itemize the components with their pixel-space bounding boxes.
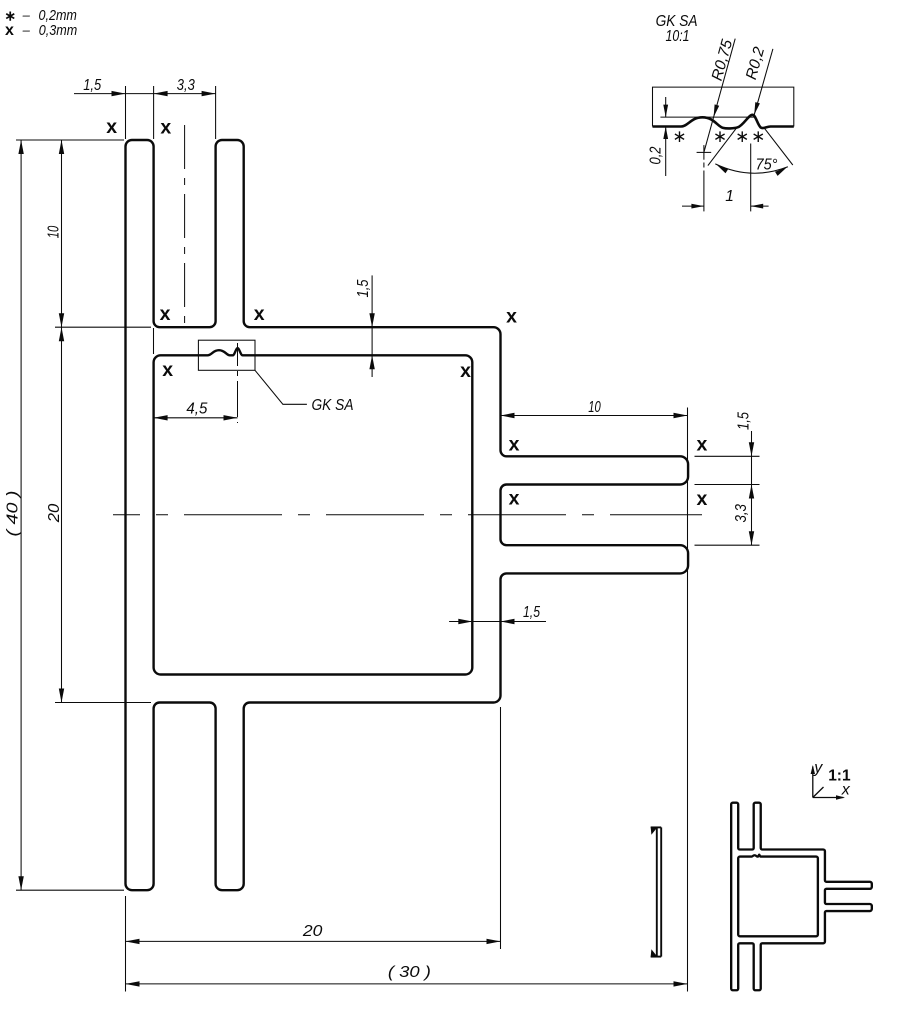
dimension 1,5 top wall <box>355 275 375 377</box>
svg-text:x: x <box>696 488 707 510</box>
legend x 0,3mm <box>5 22 77 39</box>
svg-text:x: x <box>160 303 171 325</box>
dimension 10 left <box>46 140 65 327</box>
tolerance mark x4 <box>254 303 265 325</box>
svg-text:x: x <box>254 303 265 325</box>
detail section rectangle <box>653 87 794 126</box>
tolerance mark x5 <box>506 305 517 327</box>
svg-text:∗: ∗ <box>751 127 765 146</box>
tolerance mark x11 <box>696 488 707 510</box>
GK SA detail marker box <box>198 340 255 370</box>
svg-text:1: 1 <box>725 188 734 205</box>
angle 75 degrees cone and arc <box>708 127 793 176</box>
svg-text:1,5: 1,5 <box>523 604 540 621</box>
svg-text:10: 10 <box>46 225 63 238</box>
svg-text:x: x <box>460 360 471 382</box>
dimension (30) bottom <box>126 964 688 987</box>
svg-text:∗: ∗ <box>735 127 749 146</box>
svg-text:0,3mm: 0,3mm <box>39 22 77 39</box>
profile outer outline <box>126 140 689 890</box>
svg-text:75°: 75° <box>756 157 778 174</box>
detail asterisks <box>672 127 765 146</box>
extension lines top legs <box>126 86 216 139</box>
svg-text:–: – <box>22 23 31 38</box>
extension lines left <box>16 140 151 890</box>
extension lines bottom <box>126 707 501 992</box>
svg-text:x: x <box>509 434 520 456</box>
dimension 1,5 prong <box>735 412 754 546</box>
dimension 1,5 right wall <box>449 604 546 624</box>
detail surface with bumps R0,75 and R0,2 <box>653 115 794 129</box>
extension lines right prongs <box>695 456 760 545</box>
svg-text:x: x <box>106 116 117 138</box>
dimension 1 detail <box>682 144 769 212</box>
leader R0,75 <box>704 37 736 152</box>
svg-text:∗: ∗ <box>672 127 686 146</box>
dimension 3,3 prong gap <box>733 504 754 545</box>
detail bump top reference line <box>660 116 754 118</box>
svg-text:10:1: 10:1 <box>666 28 690 45</box>
tolerance mark x2 <box>160 116 171 138</box>
side view thin section <box>651 827 662 958</box>
detail title GK SA 10:1 <box>656 13 698 45</box>
dimension 20 bottom <box>126 923 501 944</box>
svg-text:GK SA: GK SA <box>312 397 354 414</box>
svg-text:x: x <box>696 434 707 456</box>
svg-text:x: x <box>5 22 14 39</box>
1:1 scale profile view <box>731 803 872 991</box>
svg-text:4,5: 4,5 <box>186 401 207 418</box>
dimension 20 left <box>46 327 64 702</box>
leader R0,2 <box>743 45 773 115</box>
tolerance mark x8 <box>509 434 520 456</box>
tolerance mark x1 <box>106 116 117 138</box>
dimension 0,2 detail <box>648 97 669 176</box>
tolerance mark x7 <box>460 360 471 382</box>
tolerance mark x6 <box>162 359 173 381</box>
centerline vertical at GK SA bump <box>237 343 239 423</box>
extension line prong tips vertical <box>687 408 689 992</box>
svg-text:20: 20 <box>46 503 63 523</box>
svg-text:x: x <box>506 305 517 327</box>
svg-text:1,5: 1,5 <box>735 412 752 430</box>
profile inner cavity outline with GK SA bumps <box>154 348 473 674</box>
svg-text:3,3: 3,3 <box>733 504 750 523</box>
svg-text:1,5: 1,5 <box>355 279 372 297</box>
svg-text:x: x <box>160 116 171 138</box>
legend star 0,2mm <box>4 7 76 24</box>
tolerance mark x3 <box>160 303 171 325</box>
svg-text:1,5: 1,5 <box>83 77 101 94</box>
dimension 1,5 / 3,3 top <box>74 77 216 96</box>
GK SA leader and label <box>255 370 354 414</box>
center cross R0,75 <box>697 145 712 211</box>
tolerance mark x10 <box>509 488 520 510</box>
svg-text:3,3: 3,3 <box>177 77 195 94</box>
svg-text:x: x <box>162 359 173 381</box>
dimension 4,5 <box>154 401 238 421</box>
svg-text:x: x <box>841 781 851 798</box>
coordinate axes x y with 1:1 label <box>811 759 851 799</box>
tolerance mark x9 <box>696 434 707 456</box>
svg-text:20: 20 <box>302 923 323 940</box>
svg-text:x: x <box>509 488 520 510</box>
centerline horizontal main axis <box>113 514 702 516</box>
svg-text:y: y <box>813 759 823 776</box>
svg-text:( 40 ): ( 40 ) <box>5 491 22 537</box>
svg-text:( 30 ): ( 30 ) <box>388 964 431 981</box>
svg-text:–: – <box>22 8 31 23</box>
svg-text:0,2: 0,2 <box>648 146 665 164</box>
dimension 10 right <box>501 399 688 418</box>
svg-text:10: 10 <box>588 399 601 416</box>
dimension (40) left <box>5 140 24 890</box>
extension line inner corner vertical <box>153 328 155 354</box>
centerline vertical between top legs <box>184 125 186 331</box>
